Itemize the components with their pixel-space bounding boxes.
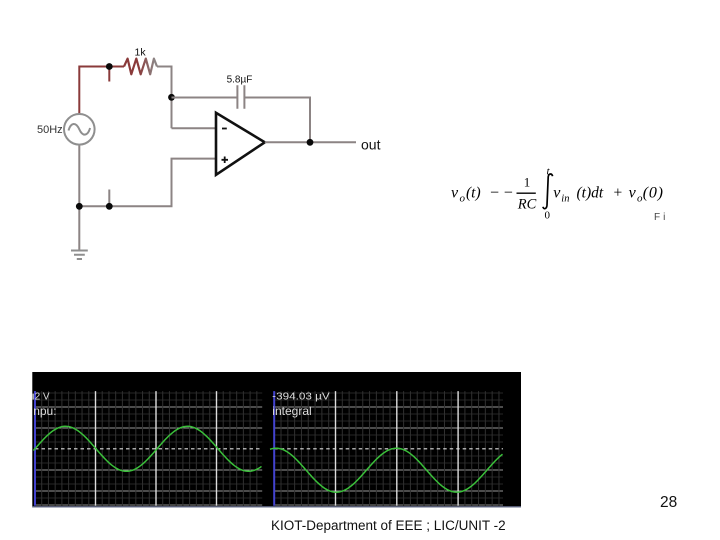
wire: stub below top junction	[108, 67, 110, 82]
wire: resistor to inverting branch	[157, 67, 172, 129]
wire: output	[265, 141, 356, 143]
svg-text:v: v	[553, 185, 561, 202]
scope trace input (left)	[34, 426, 262, 471]
partial Fi caption	[654, 212, 668, 223]
node A junction dot	[106, 63, 113, 70]
resistor R1 1k	[124, 59, 157, 75]
wire: source top to resistor (red)	[79, 67, 124, 116]
svg-text:integral: integral	[272, 404, 311, 418]
ground	[71, 251, 88, 260]
svg-text:npu:: npu:	[33, 404, 56, 418]
page number	[660, 494, 677, 512]
svg-text:(t): (t)	[466, 185, 481, 202]
svg-text:(0): (0)	[643, 185, 664, 202]
wire: stub above bottom junction	[108, 190, 110, 207]
capacitor C1 5.8uF	[237, 85, 244, 109]
node D junction dot	[106, 203, 113, 210]
formula vo(t) = -(1/RC) integral	[450, 160, 690, 230]
svg-text:RC: RC	[517, 197, 537, 213]
wire: bottom rail from source to non-inverting branch	[79, 144, 215, 250]
AC source V1 50Hz	[64, 114, 95, 145]
scope partial glyph at left edge	[33, 394, 34, 400]
svg-text:+: +	[614, 185, 623, 202]
svg-text:1: 1	[524, 175, 531, 190]
svg-text:-394.03 µV: -394.03 µV	[272, 391, 330, 403]
oscilloscope screenshot background	[32, 372, 521, 508]
wire: feedback left segment	[172, 97, 238, 99]
op-amp minus label	[222, 128, 227, 130]
svg-text:5.8µF: 5.8µF	[227, 75, 253, 86]
svg-text:(t)dt: (t)dt	[577, 185, 604, 202]
scope grid	[32, 391, 521, 507]
wire: inverting input horizontal	[172, 127, 216, 129]
svg-text:1k: 1k	[135, 47, 147, 59]
svg-text:v: v	[629, 185, 637, 202]
svg-text:−: −	[490, 185, 499, 202]
op-amp plus label	[222, 157, 229, 164]
svg-text:50Hz: 50Hz	[37, 124, 63, 136]
svg-text:−: −	[504, 185, 513, 202]
svg-text:t: t	[547, 166, 551, 178]
svg-text:2 V: 2 V	[35, 392, 50, 403]
scope trace integral (right)	[270, 448, 503, 492]
svg-text:v: v	[451, 185, 459, 202]
wire: feedback right segment down to output node	[244, 98, 310, 143]
svg-text:in: in	[561, 194, 569, 205]
svg-text:o: o	[460, 193, 466, 205]
node B junction dot	[168, 94, 175, 101]
svg-text:out: out	[361, 137, 381, 153]
footer	[271, 518, 506, 533]
node out junction dot	[307, 139, 314, 146]
svg-text:0: 0	[545, 209, 551, 221]
op-amp U1	[216, 113, 265, 175]
node C junction dot	[76, 203, 83, 210]
